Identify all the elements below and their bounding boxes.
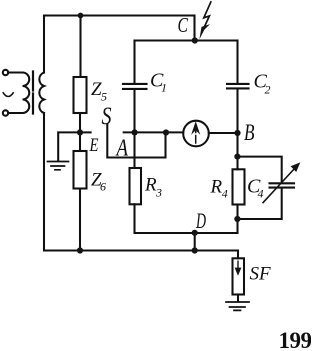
svg-text:1: 1	[161, 81, 167, 95]
wire C1 top lead	[133, 41, 135, 84]
wire meter right to node B	[209, 132, 238, 134]
node Z6 bottom junction	[77, 247, 83, 253]
wire bottom lower rail	[44, 249, 238, 251]
node D junction	[192, 230, 198, 236]
svg-text:6: 6	[100, 180, 106, 194]
svg-text:199: 199	[279, 328, 312, 351]
svg-text:C: C	[178, 13, 189, 37]
wire top rail	[44, 14, 195, 16]
ground (below SF)	[226, 302, 249, 310]
node on lower rail below D	[192, 247, 198, 253]
transformer input terminal bottom	[3, 110, 8, 115]
wire bottom upper rail	[135, 232, 238, 234]
ground (left, node E)	[48, 162, 69, 170]
ac source symbol ~	[3, 93, 13, 97]
meter arrow	[195, 130, 197, 144]
wire node B to R4 top node	[236, 157, 238, 170]
resistor R4	[233, 169, 245, 204]
svg-text:E: E	[89, 135, 99, 156]
wire C2 bottom lead down through node B	[236, 89, 238, 156]
wire node A horizontal	[124, 131, 184, 133]
svg-text:R: R	[210, 177, 223, 198]
wire node A down to R3	[133, 132, 135, 168]
transformer T primary top lead	[8, 71, 22, 73]
wire node E stub right	[80, 131, 91, 133]
node B junction	[234, 130, 240, 136]
wire C4 branch bottom	[238, 188, 282, 219]
svg-text:3: 3	[155, 186, 162, 200]
resistor Z5	[74, 77, 87, 113]
wire left vertical (transformer secondary to bottom rail)	[43, 113, 45, 251]
meter P with arrow (circle)	[183, 121, 209, 147]
svg-text:D: D	[195, 208, 206, 233]
transformer T primary bottom lead	[8, 112, 22, 114]
wire C4 branch top	[238, 157, 282, 183]
capacitor C1	[123, 84, 147, 89]
svg-text:5: 5	[101, 90, 107, 104]
node A junction left	[132, 129, 138, 135]
svg-text:2: 2	[265, 83, 271, 97]
transformer T secondary winding	[39, 73, 44, 114]
wire C rail	[135, 39, 238, 41]
impulse arrow at node C (lightning)	[202, 1, 212, 33]
resistor Z6	[74, 151, 87, 189]
capacitor C4 (variable)	[270, 183, 295, 187]
wire Z6 bottom to lower rail	[79, 189, 81, 251]
wire Z5 bottom to node E	[79, 113, 81, 151]
wire S lead and loop under A up to node	[107, 125, 165, 158]
node A junction right	[163, 129, 169, 135]
wire C2 top lead	[236, 41, 238, 84]
wire SF bottom to ground	[237, 295, 239, 302]
transformer T primary winding	[23, 73, 30, 114]
svg-text:4: 4	[222, 187, 228, 201]
arrester SF	[233, 258, 245, 294]
svg-text:A: A	[115, 136, 128, 162]
wire left vertical (top section to transformer secondary)	[43, 16, 45, 73]
wire link between rails at node D	[194, 233, 196, 251]
capacitor C2	[227, 84, 249, 89]
wire R3 bottom to upper rail	[133, 204, 135, 233]
svg-text:B: B	[244, 120, 255, 145]
wire R4 bottom	[236, 205, 238, 234]
svg-text:SF: SF	[250, 264, 272, 285]
wire node E to ground	[58, 132, 80, 160]
node junction on top rail	[78, 13, 84, 19]
node C junction	[192, 37, 198, 43]
wire Z5 branch from top rail	[79, 16, 81, 78]
resistor R3	[130, 168, 142, 204]
node E junction	[77, 129, 83, 135]
node R4 top junction	[234, 154, 240, 160]
transformer T core	[32, 72, 34, 114]
svg-text:S: S	[102, 103, 112, 130]
arrow inside SF	[237, 261, 239, 272]
wire C1 bottom lead	[133, 90, 135, 133]
arrow of variable capacitor C4	[263, 168, 296, 204]
svg-text:4: 4	[258, 187, 264, 201]
transformer input terminal top	[3, 70, 8, 75]
wire top rail corner down to node C	[193, 16, 195, 41]
wire lower rail corner down to SF	[237, 251, 239, 259]
node R4 bottom junction	[234, 216, 240, 222]
